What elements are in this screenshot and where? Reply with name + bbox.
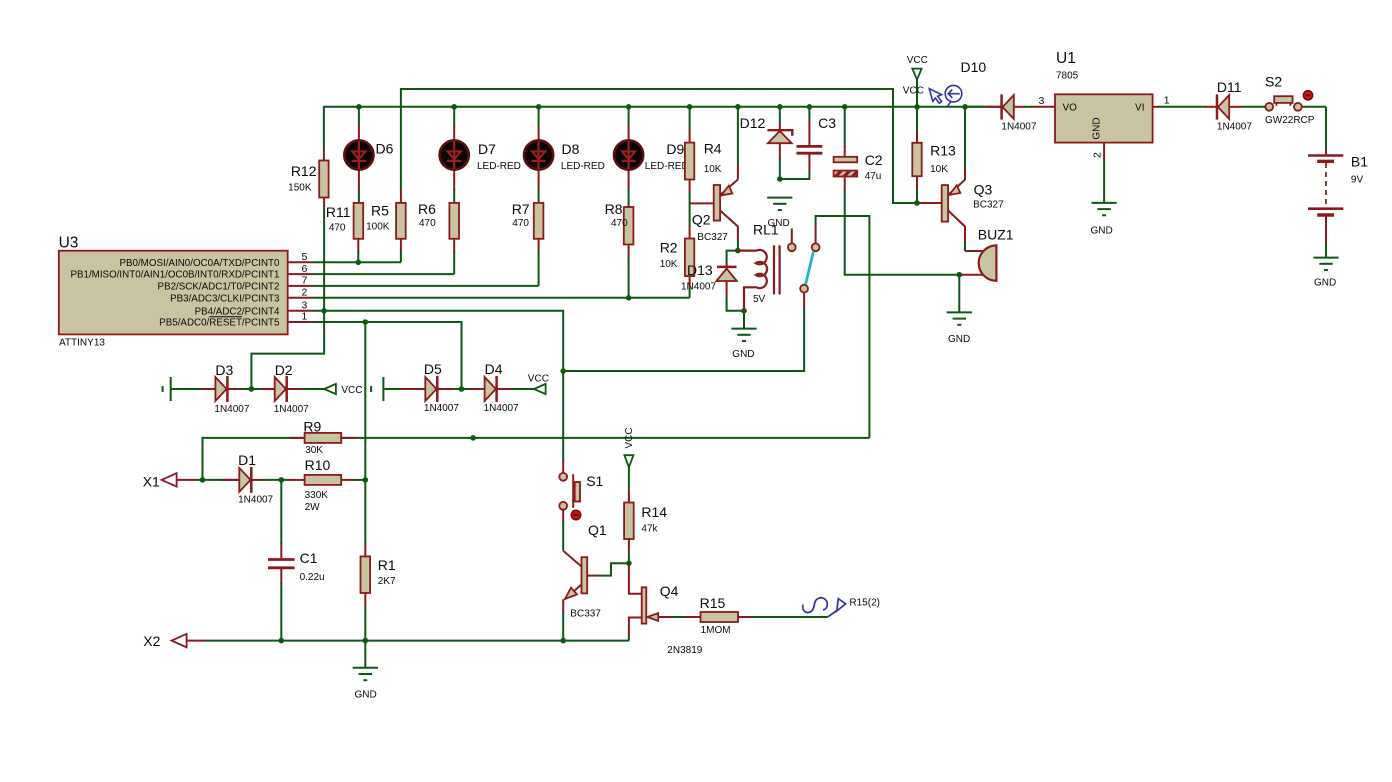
svg-text:VCC: VCC <box>624 427 635 448</box>
svg-text:D11: D11 <box>1217 79 1242 95</box>
svg-text:1N4007: 1N4007 <box>1217 122 1252 133</box>
svg-text:3: 3 <box>1039 95 1045 107</box>
wire: R15 right dangling <box>738 616 828 618</box>
wire: PB0 pin5 row <box>313 261 401 263</box>
wire: C1 column <box>280 480 282 641</box>
wire: battery bottom to GND <box>1325 217 1327 258</box>
power VCC terminal (after D4) <box>528 373 549 394</box>
wire: PB5 pin1 row to D5/D4 junction <box>313 322 462 389</box>
svg-text:1N4007: 1N4007 <box>681 282 716 293</box>
svg-text:GW22RCP: GW22RCP <box>1265 115 1315 126</box>
svg-text:Q3: Q3 <box>974 182 993 198</box>
svg-text:PB3/ADC3/CLKI/PCINT3: PB3/ADC3/CLKI/PCINT3 <box>170 293 280 304</box>
wire: R9 pins <box>290 437 356 439</box>
node: D1 / C1 top <box>279 477 285 483</box>
svg-text:1N4007: 1N4007 <box>484 403 519 414</box>
capacitor C2 47u electrolytic <box>834 152 883 182</box>
resistor R8 <box>605 201 634 245</box>
svg-text:150K: 150K <box>288 183 312 194</box>
svg-text:R5: R5 <box>371 202 389 218</box>
svg-text:9V: 9V <box>1351 175 1364 186</box>
node: R9 row junction <box>470 435 476 441</box>
wire: C3 bottom hook to gnd node <box>780 155 810 180</box>
wire: D9 column stubs <box>628 107 630 207</box>
svg-text:R15(2): R15(2) <box>849 598 880 609</box>
wire: R14 bottom to node <box>628 539 630 563</box>
wire: D4 to VCC terminal <box>498 388 534 390</box>
S1 red indicator <box>571 510 581 520</box>
transistor Q4 2N3819 JFET <box>642 583 703 656</box>
svg-text:R9: R9 <box>303 419 321 435</box>
wire: PB4 pin3 row to S1 column <box>313 311 564 461</box>
wire: X1 row <box>177 479 239 481</box>
svg-text:D5: D5 <box>424 361 442 377</box>
capacitor C3 <box>797 115 837 153</box>
svg-text:GND: GND <box>1314 278 1336 289</box>
wire: buzzer bottom pin <box>959 274 983 276</box>
resistor R15 (horizontal) <box>700 595 738 636</box>
resistor R7 <box>512 201 544 239</box>
diode D2 1N4007 <box>274 362 309 415</box>
svg-text:1N4007: 1N4007 <box>1001 122 1036 133</box>
svg-text:D2: D2 <box>275 362 293 378</box>
wire: Q3 emitter pin <box>964 167 966 180</box>
ground (R1/X2) <box>353 668 378 701</box>
svg-text:PB2/SCK/ADC1/T0/PCINT2: PB2/SCK/ADC1/T0/PCINT2 <box>158 281 280 292</box>
node: C1 bottom X2 row <box>279 638 285 644</box>
LED D7 <box>440 140 521 172</box>
svg-text:1N4007: 1N4007 <box>214 404 249 415</box>
node: R1 bottom X2 row <box>363 638 369 644</box>
wire: D3 to junction <box>228 388 251 390</box>
wire: VCC bus A (main top rail y=106.8) <box>324 107 1000 150</box>
wire: R12 top stub <box>323 149 325 161</box>
svg-text:VCC: VCC <box>903 86 924 97</box>
wire: Q3 emitter column <box>964 107 966 168</box>
wire: C3 top stub <box>808 107 810 145</box>
resistor R14 <box>624 503 667 540</box>
svg-text:LED-RED: LED-RED <box>645 161 689 172</box>
svg-text:R13: R13 <box>930 143 956 159</box>
node: PB5 row / R1 branch <box>363 319 369 325</box>
svg-text:VCC: VCC <box>907 55 928 66</box>
wire: Q2 emitter column from bus A <box>737 107 739 180</box>
diode D1 1N4007 <box>238 452 273 506</box>
zener diode D12 <box>740 115 793 143</box>
svg-text:D1: D1 <box>238 452 256 468</box>
svg-text:BC327: BC327 <box>973 200 1004 211</box>
node: D12/C3 gnd <box>777 176 783 182</box>
diode D4 1N4007 <box>484 361 519 414</box>
wire: relay pole down and left to S1 column <box>563 293 804 371</box>
svg-text:BC337: BC337 <box>570 609 601 620</box>
wire: bus B upper rail (R5 top to R13/Q3 base) <box>401 89 942 203</box>
svg-text:S2: S2 <box>1265 74 1282 90</box>
wire: D12 anode to gnd node <box>779 143 781 179</box>
resistor R9 (horizontal) <box>303 419 341 456</box>
node: PB3 row / R8 <box>626 295 632 301</box>
wire: R12 bottom to PB4 row then to D3/D2 junction <box>251 198 324 390</box>
svg-text:PB1/MISO/INT0/AIN1/OC0B/INT0/R: PB1/MISO/INT0/AIN1/OC0B/INT0/RXD/PCINT1 <box>70 270 279 281</box>
power VCC terminal (top, R13 column) <box>907 55 928 80</box>
diode D3 1N4007 <box>214 362 249 415</box>
wire: S1 top pin <box>562 460 564 473</box>
node: R10 / R1 top <box>363 477 369 483</box>
wire: C2 top stub <box>844 107 846 157</box>
svg-text:R14: R14 <box>641 504 667 520</box>
LED D9 <box>614 140 689 172</box>
node: S1 column / relay pole wire <box>560 368 566 374</box>
wire: R1 gnd stub <box>364 641 366 668</box>
svg-text:5: 5 <box>302 251 308 263</box>
ground (buzzer) <box>947 312 972 345</box>
wire: Q3 collector to buzzer top <box>965 226 984 251</box>
LED D6 <box>344 140 393 169</box>
resistor R1 <box>361 556 397 593</box>
switch S1 <box>559 473 603 510</box>
svg-text:GND: GND <box>1092 117 1103 139</box>
svg-text:S1: S1 <box>586 473 603 489</box>
battery B1 9V <box>1308 154 1368 216</box>
wire: S1 bottom to Q1 collector <box>562 510 564 551</box>
svg-text:1: 1 <box>1164 95 1170 107</box>
node: PB0 row / R11 <box>356 260 362 266</box>
svg-text:X1: X1 <box>143 474 160 490</box>
svg-text:R8: R8 <box>605 201 623 217</box>
svg-text:470: 470 <box>419 218 436 229</box>
diode D5 1N4007 <box>424 361 459 414</box>
svg-text:VCC: VCC <box>341 385 362 396</box>
svg-text:GND: GND <box>355 690 377 701</box>
transistor Q3 BC327 PNP <box>942 180 1004 227</box>
svg-text:U1: U1 <box>1056 50 1076 67</box>
wire: R6 bottom to PB1 row corner <box>453 239 455 275</box>
svg-text:2: 2 <box>1092 152 1104 158</box>
svg-text:1N4007: 1N4007 <box>238 495 273 506</box>
svg-text:D6: D6 <box>376 141 394 157</box>
svg-text:U3: U3 <box>59 235 79 252</box>
wire: X2 row <box>187 640 629 642</box>
svg-text:X2: X2 <box>143 633 160 649</box>
svg-text:30K: 30K <box>305 445 323 456</box>
ground (relay/D13) <box>731 329 756 360</box>
svg-text:R15: R15 <box>700 595 726 611</box>
svg-text:2K7: 2K7 <box>378 576 396 587</box>
wire: Q1 emitter down to X2 row <box>562 599 564 640</box>
wire: U1 VI pin to D11 <box>1153 106 1217 108</box>
wire: D5 row (terminal to D5) <box>384 388 425 390</box>
node: buzzer gnd <box>957 272 963 278</box>
relay RL1 <box>738 222 820 311</box>
svg-text:R2: R2 <box>660 240 678 256</box>
svg-text:D4: D4 <box>485 361 503 377</box>
circled left-arrow icon <box>945 85 962 107</box>
svg-text:PB4/ADC2/PCINT4: PB4/ADC2/PCINT4 <box>195 306 280 317</box>
wire: R13 column stubs <box>916 107 918 203</box>
wire: D3 row (terminal to D3) <box>172 388 216 390</box>
transistor Q2 BC327 PNP <box>692 180 738 244</box>
wire: D6 column stubs <box>358 107 360 204</box>
svg-text:7805: 7805 <box>1056 71 1079 82</box>
svg-text:LED-RED: LED-RED <box>477 161 521 172</box>
svg-text:GND: GND <box>948 334 970 345</box>
wire: R9 row <box>203 438 870 479</box>
svg-text:470: 470 <box>611 218 628 229</box>
wire: R11 bottom to PB0 row <box>357 239 359 263</box>
svg-text:2: 2 <box>302 287 308 299</box>
wire: D5 to junction <box>438 388 461 390</box>
svg-text:R12: R12 <box>291 163 317 179</box>
node: relay coil top <box>735 248 741 254</box>
wire: PB3 pin2 row <box>313 297 690 299</box>
wire: relay NC stub <box>791 228 793 243</box>
switch S2 GW22RCP <box>1265 74 1315 127</box>
wire: D11 to S2 <box>1229 106 1265 108</box>
svg-text:R6: R6 <box>418 201 436 217</box>
svg-text:D3: D3 <box>215 362 233 378</box>
wire: junction to D2 <box>251 388 274 390</box>
resistor R4 <box>685 141 722 180</box>
power VCC terminal (after D2) <box>324 384 362 396</box>
wire: R10 right to R1 node <box>341 479 365 481</box>
wire: U1 GND pin 2 <box>1103 143 1105 203</box>
wire: D1 pins <box>222 479 305 481</box>
node: bus A junctions <box>356 104 968 110</box>
svg-text:C1: C1 <box>300 550 318 566</box>
resistor R11 <box>326 203 363 239</box>
svg-text:BC327: BC327 <box>697 232 728 243</box>
svg-text:2W: 2W <box>305 502 321 513</box>
svg-text:LED-RED: LED-RED <box>561 161 605 172</box>
wire: D10 left pin from bus A <box>965 106 1002 108</box>
ground (U1) <box>1091 203 1117 237</box>
svg-text:VI: VI <box>1135 103 1144 114</box>
terminal X1 <box>143 473 177 489</box>
transistor Q1 BC337 NPN <box>563 522 607 620</box>
svg-text:ATTINY13: ATTINY13 <box>59 337 105 348</box>
terminal X2 <box>143 633 186 649</box>
node: relay coil bottom / D13 anode <box>741 308 747 314</box>
svg-text:VO: VO <box>1063 103 1078 114</box>
svg-text:1MOM: 1MOM <box>701 625 731 636</box>
svg-text:C2: C2 <box>865 152 883 168</box>
svg-text:3: 3 <box>302 299 308 311</box>
svg-text:Q1: Q1 <box>588 522 607 538</box>
svg-text:R1: R1 <box>378 557 396 573</box>
wire: D8 column stubs <box>538 107 540 204</box>
wire: Q2 collector down to relay coil node <box>737 226 739 251</box>
svg-text:470: 470 <box>512 218 529 229</box>
svg-text:1N4007: 1N4007 <box>274 404 309 415</box>
wire: R5 top/bottom stubs <box>400 190 402 262</box>
svg-text:1N4007: 1N4007 <box>424 403 459 414</box>
svg-text:GND: GND <box>732 349 754 360</box>
svg-text:470: 470 <box>329 223 346 234</box>
svg-text:0.22u: 0.22u <box>300 572 325 583</box>
svg-text:10K: 10K <box>660 259 678 270</box>
wire: buzzer gnd node down <box>958 275 960 313</box>
wire: D7 column stubs <box>453 107 455 204</box>
wire: Q1 base path from R14 node <box>587 563 629 575</box>
wire: R7 bottom to PB2 row corner <box>538 239 540 286</box>
svg-text:2N3819: 2N3819 <box>667 645 702 656</box>
wire: relay coil bottom to GND <box>743 311 745 329</box>
wire: R2 bottom to PB3 row <box>689 276 691 298</box>
resistor R5 <box>366 202 406 238</box>
resistor R6 <box>418 201 459 239</box>
svg-text:7: 7 <box>302 275 308 287</box>
wire: Q3 base stub <box>917 202 942 204</box>
svg-text:C3: C3 <box>818 115 836 131</box>
svg-text:10K: 10K <box>930 164 948 175</box>
svg-text:Q4: Q4 <box>660 583 679 599</box>
wire: D12 column stub <box>779 107 781 130</box>
wire: Q4 source hook to X2 row <box>629 618 642 641</box>
diode D10 1N4007 <box>961 59 1045 133</box>
svg-text:1: 1 <box>302 311 308 323</box>
battery terminal symbol (D5 row) <box>371 377 383 401</box>
wire: R1 column <box>364 480 366 641</box>
svg-text:GND: GND <box>768 218 790 229</box>
node: PB4 row / R12 column <box>321 308 327 314</box>
wire: junction to D4 <box>462 388 485 390</box>
diode D13 1N4007 (flyback, vertical) <box>681 262 737 293</box>
svg-text:D13: D13 <box>687 262 713 278</box>
ground (D12/C3) <box>767 198 792 229</box>
resistor R2 <box>660 239 695 277</box>
dangling wire marker (blue squiggle + flag) <box>803 598 880 618</box>
svg-text:R4: R4 <box>704 141 722 157</box>
svg-text:D8: D8 <box>562 141 580 157</box>
wire: D13 anode to coil bottom node <box>727 281 744 311</box>
wire: Q2 base from R4 node <box>690 202 714 204</box>
node: R14 bottom / Q1 base / Q4 drain <box>626 561 632 567</box>
svg-text:R10: R10 <box>305 457 331 473</box>
svg-text:D12: D12 <box>740 115 766 131</box>
svg-text:VCC: VCC <box>528 373 549 384</box>
resistor R10 (horizontal) <box>305 457 342 513</box>
svg-text:PB5/ADC0/RESET/PCINT5: PB5/ADC0/RESET/PCINT5 <box>159 318 280 329</box>
U3 ATTINY13 microcontroller <box>59 235 313 349</box>
svg-text:D7: D7 <box>478 141 496 157</box>
svg-text:D10: D10 <box>961 59 987 75</box>
wire: D2 to VCC terminal <box>288 388 325 390</box>
wire: VCC symbol stub at R13 <box>916 80 918 107</box>
svg-text:100K: 100K <box>366 222 390 233</box>
buzzer BUZ1 <box>978 227 1014 281</box>
svg-text:5V: 5V <box>753 294 766 305</box>
wire: PB5 branch down to R10/X1 node <box>364 322 366 480</box>
svg-text:PB0/MOSI/AIN0/OC0A/TXD/PCINT0: PB0/MOSI/AIN0/OC0A/TXD/PCINT0 <box>119 258 280 269</box>
node: R13 bottom / Q3 base <box>914 200 920 206</box>
capacitor C1 <box>268 550 325 583</box>
svg-text:330K: 330K <box>305 490 329 501</box>
wire: R2 top stub from node <box>689 203 691 238</box>
wire: R8 bottom to PB3 row <box>628 245 630 298</box>
resistor R12 <box>288 161 328 198</box>
svg-text:B1: B1 <box>1351 154 1368 170</box>
svg-text:BUZ1: BUZ1 <box>978 227 1014 243</box>
node: D3/D2 junction <box>249 386 255 392</box>
svg-text:GND: GND <box>1091 226 1113 237</box>
wire: Q4 gate to R15 <box>658 616 701 618</box>
regulator U1 7805 <box>1055 50 1170 158</box>
wire: PB2 pin7 row <box>313 285 539 287</box>
ground (battery B1) <box>1313 258 1338 289</box>
svg-text:10K: 10K <box>704 164 722 175</box>
diode D11 1N4007 <box>1217 79 1252 133</box>
wire: Q4 drain hook <box>629 563 642 593</box>
LED D8 <box>524 140 605 172</box>
mouse cursor icon <box>929 89 941 104</box>
battery terminal symbol (D3 row) <box>163 377 171 401</box>
wire: relay NO contact up and over to R9 row <box>816 216 870 438</box>
wire: PB1 pin6 row <box>313 273 455 275</box>
svg-text:D9: D9 <box>666 141 684 157</box>
resistor R13 <box>912 143 956 177</box>
svg-text:Q2: Q2 <box>692 212 711 228</box>
svg-text:47u: 47u <box>865 171 882 182</box>
power VCC terminal (R14, pointing down) <box>624 427 635 467</box>
svg-text:R7: R7 <box>512 201 530 217</box>
node: D5/D4 junction <box>459 386 465 392</box>
svg-text:6: 6 <box>302 263 308 275</box>
wire: C2 bottom to buzzer gnd node <box>845 177 960 275</box>
node: Q1 emitter X2 row <box>560 638 566 644</box>
wire: D10 to U1 VO pin <box>1014 106 1055 108</box>
wire: VCC to R14 <box>628 467 630 502</box>
node: X1 riser <box>200 477 206 483</box>
wire: relay coil top node hook to D13 cathode <box>727 251 738 267</box>
wire: S2 to battery top <box>1302 107 1326 156</box>
wire: R4 column stubs <box>689 107 691 204</box>
S2 red indicator <box>1303 91 1312 100</box>
svg-text:47k: 47k <box>641 524 658 535</box>
svg-text:R11: R11 <box>326 204 351 220</box>
